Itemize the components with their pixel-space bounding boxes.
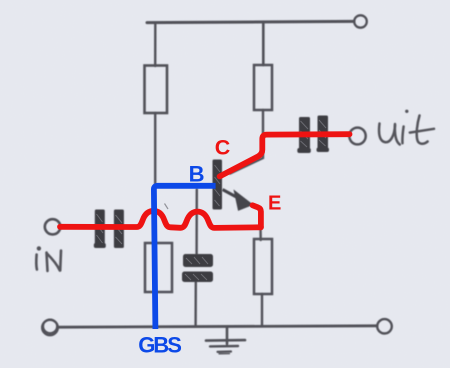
svg-text:B: B (189, 161, 205, 186)
svg-text:GBS: GBS (138, 333, 181, 358)
svg-text:E: E (268, 193, 281, 215)
svg-text:C: C (215, 136, 231, 160)
